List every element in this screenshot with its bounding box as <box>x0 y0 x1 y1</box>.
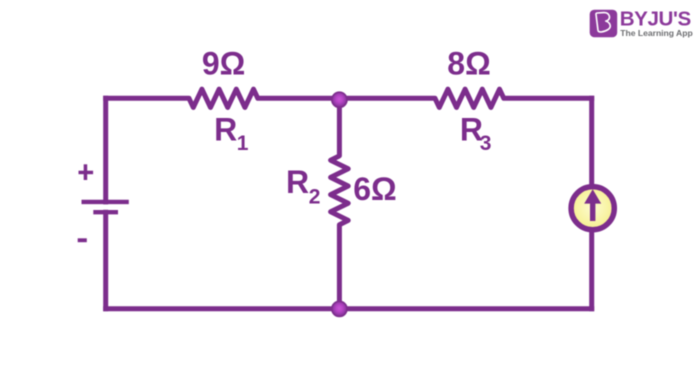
svg-text:1: 1 <box>237 132 249 155</box>
svg-text:9Ω: 9Ω <box>202 46 245 82</box>
svg-text:R: R <box>286 164 309 200</box>
svg-text:6Ω: 6Ω <box>353 171 396 207</box>
svg-text:R: R <box>214 112 237 148</box>
svg-text:The Learning App: The Learning App <box>620 28 692 38</box>
svg-text:2: 2 <box>309 186 321 209</box>
svg-text:8Ω: 8Ω <box>447 46 490 82</box>
svg-text:3: 3 <box>480 132 492 155</box>
